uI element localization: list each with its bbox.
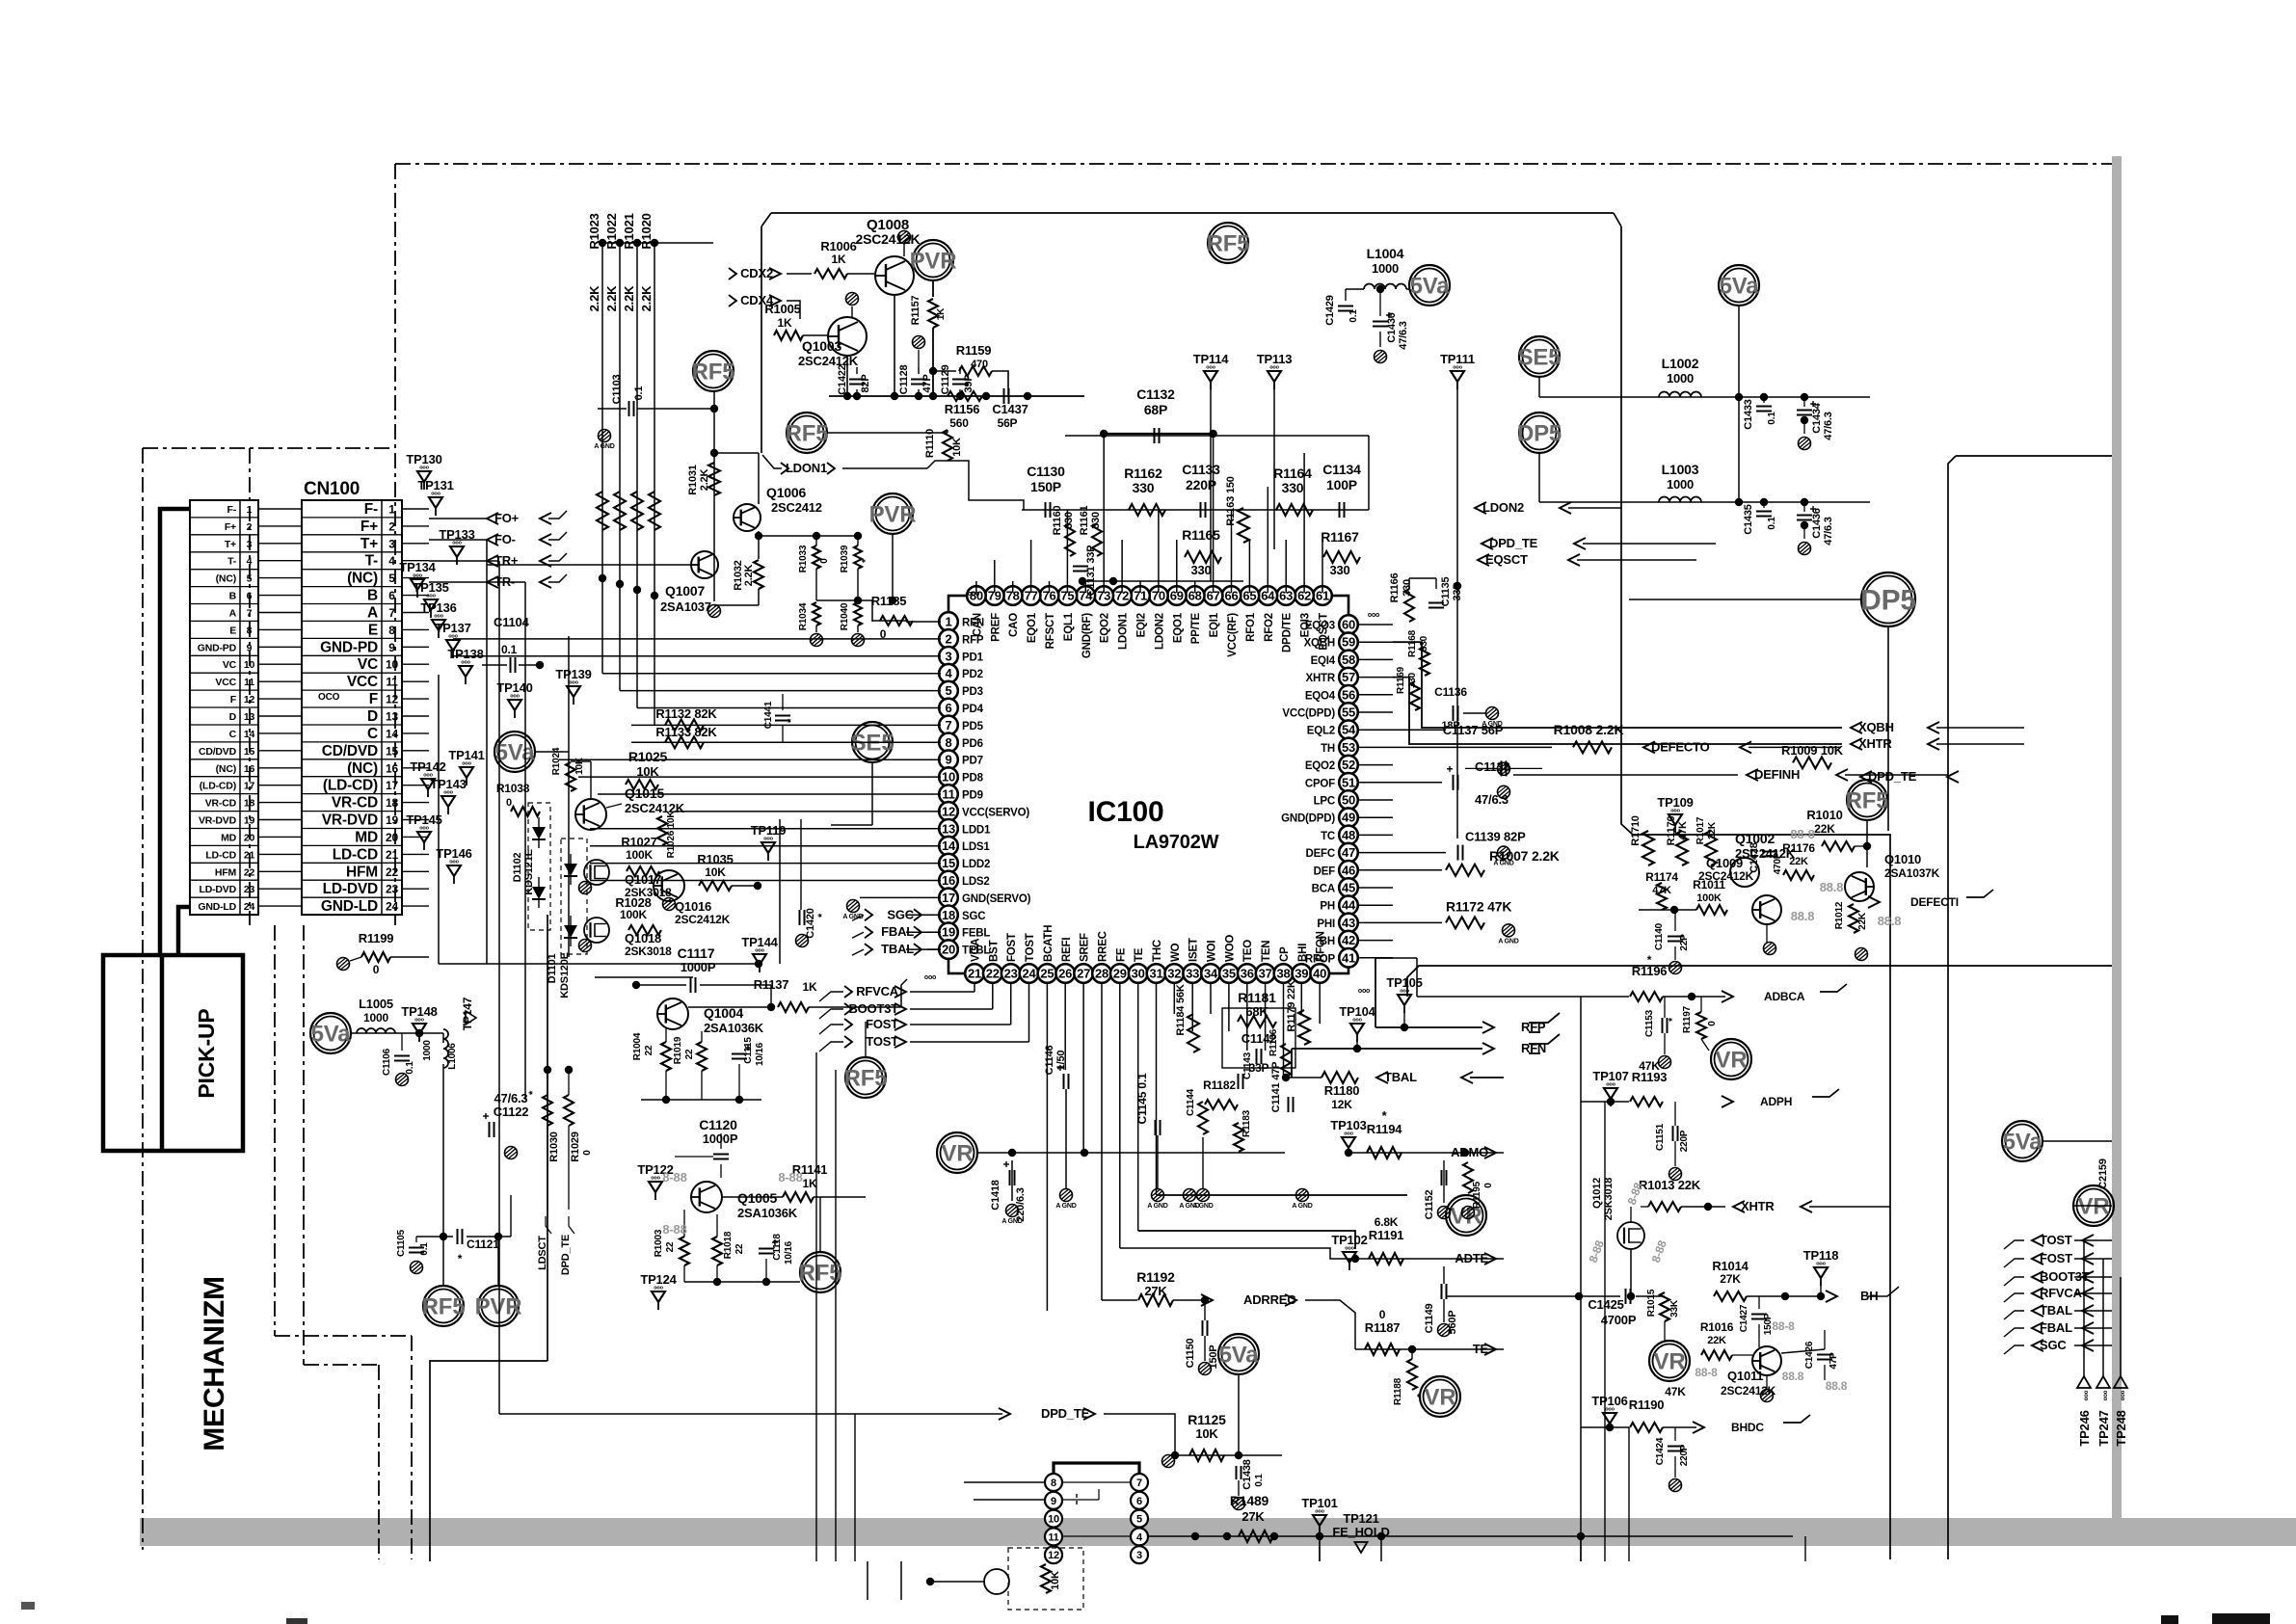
svg-text:GND(RF): GND(RF) (1081, 613, 1093, 659)
svg-text:C1105: C1105 (396, 1229, 407, 1257)
svg-text:PD8: PD8 (962, 773, 984, 785)
svg-text:56: 56 (1342, 687, 1355, 702)
svg-text:TP246: TP246 (2077, 1410, 2092, 1446)
svg-text:FBAL: FBAL (2040, 1320, 2072, 1335)
svg-text:R1710: R1710 (1630, 815, 1642, 845)
svg-text:47K: 47K (1639, 1059, 1660, 1073)
svg-text:7: 7 (1136, 1478, 1142, 1489)
svg-text:2.2K: 2.2K (587, 285, 601, 311)
svg-text:TP121: TP121 (1343, 1511, 1378, 1526)
svg-text:TP102: TP102 (1331, 1233, 1367, 1247)
svg-text:BOOT3T: BOOT3T (848, 1001, 898, 1016)
svg-text:WO: WO (1170, 943, 1182, 962)
svg-text:F: F (230, 694, 237, 706)
svg-text:5Va: 5Va (311, 1021, 352, 1047)
svg-text:CAO: CAO (1008, 613, 1020, 637)
svg-text:17: 17 (244, 781, 255, 792)
svg-text:PD5: PD5 (962, 721, 984, 732)
svg-text:(NC): (NC) (347, 571, 378, 587)
svg-text:C1427: C1427 (1739, 1304, 1749, 1332)
svg-text:11: 11 (386, 676, 398, 689)
svg-text:C1146: C1146 (1044, 1046, 1055, 1076)
svg-text:(NC): (NC) (347, 760, 378, 777)
svg-text:L1006: L1006 (447, 1043, 458, 1070)
svg-text:R1191: R1191 (1369, 1228, 1404, 1242)
svg-text:TP107: TP107 (1592, 1069, 1628, 1083)
svg-text:8: 8 (247, 625, 253, 636)
svg-text:22K: 22K (1789, 856, 1808, 867)
svg-text:22: 22 (684, 1049, 695, 1059)
svg-text:43: 43 (1342, 916, 1355, 930)
svg-text:EQL2: EQL2 (1307, 726, 1335, 737)
svg-text:6: 6 (945, 701, 951, 715)
svg-text:560: 560 (949, 416, 969, 430)
svg-text:27K: 27K (1241, 1509, 1265, 1524)
svg-text:C1128: C1128 (898, 365, 910, 395)
svg-text:29: 29 (1113, 967, 1127, 981)
svg-text:60: 60 (1342, 618, 1355, 632)
svg-text:VCC: VCC (347, 674, 378, 690)
svg-text:C1430: C1430 (1386, 312, 1398, 342)
svg-text:20: 20 (386, 831, 398, 844)
svg-text:F: F (369, 691, 378, 707)
svg-text:GND-PD: GND-PD (198, 642, 237, 653)
svg-text:88.8: 88.8 (1820, 880, 1844, 894)
svg-text:17: 17 (942, 891, 955, 905)
svg-text:0: 0 (582, 1150, 593, 1156)
svg-text:R1167: R1167 (1321, 529, 1359, 545)
svg-text:DPD_TE: DPD_TE (560, 1235, 572, 1275)
svg-text:88-8: 88-8 (1695, 1366, 1718, 1379)
svg-text:R1008 2.2K: R1008 2.2K (1554, 722, 1624, 737)
svg-text:A GND: A GND (1147, 1203, 1167, 1210)
svg-text:22P: 22P (1679, 934, 1690, 951)
svg-text:R1034: R1034 (798, 602, 809, 630)
svg-text:RF5: RF5 (1846, 787, 1889, 813)
svg-text:C1103: C1103 (611, 375, 623, 405)
svg-text:6: 6 (388, 589, 395, 602)
svg-text:TP144: TP144 (741, 935, 778, 949)
svg-text:A GND: A GND (1055, 1203, 1076, 1210)
svg-text:68P: 68P (1144, 402, 1167, 417)
svg-text:R1009 10K: R1009 10K (1781, 743, 1844, 758)
svg-text:12: 12 (244, 694, 255, 706)
svg-text:R1030: R1030 (548, 1131, 560, 1161)
svg-text:RFO1: RFO1 (1245, 612, 1257, 642)
svg-text:R1039: R1039 (840, 545, 850, 572)
svg-text:CD/DVD: CD/DVD (322, 743, 378, 759)
svg-text:LDS2: LDS2 (962, 876, 990, 888)
svg-text:220P: 220P (1679, 1130, 1690, 1152)
svg-text:C1152: C1152 (1424, 1190, 1435, 1220)
svg-text:6: 6 (247, 591, 253, 602)
svg-text:R1025: R1025 (628, 749, 668, 764)
svg-text:2SC2412K: 2SC2412K (675, 913, 731, 926)
svg-text:VR: VR (942, 1140, 974, 1166)
svg-text:ooo: ooo (2103, 1390, 2109, 1400)
svg-text:TP147: TP147 (461, 997, 474, 1030)
svg-text:PD1: PD1 (962, 652, 984, 663)
svg-text:R1013 22K: R1013 22K (1639, 1178, 1701, 1192)
svg-text:C1144: C1144 (1186, 1088, 1196, 1116)
svg-text:(LD-CD): (LD-CD) (200, 781, 236, 792)
svg-text:C1122: C1122 (494, 1105, 529, 1119)
svg-text:27: 27 (1077, 967, 1090, 981)
svg-text:16: 16 (942, 873, 955, 888)
svg-text:59: 59 (1342, 635, 1355, 650)
svg-text:WOI: WOI (1207, 941, 1218, 962)
svg-text:Q1010: Q1010 (1884, 852, 1921, 866)
svg-text:TBAL: TBAL (1384, 1070, 1417, 1084)
svg-text:R1027: R1027 (621, 835, 656, 849)
svg-text:R1012: R1012 (1834, 901, 1845, 929)
svg-text:DP5: DP5 (1860, 585, 1916, 617)
svg-text:A GND: A GND (1292, 1203, 1312, 1210)
svg-text:12: 12 (386, 693, 398, 706)
svg-text:47P: 47P (1829, 1352, 1839, 1370)
svg-text:TP134: TP134 (399, 560, 436, 574)
svg-text:R1035: R1035 (697, 852, 733, 866)
svg-text:C1422: C1422 (837, 364, 848, 394)
svg-text:19: 19 (942, 925, 955, 940)
svg-text:16: 16 (244, 763, 255, 775)
svg-text:C1106: C1106 (382, 1048, 392, 1076)
svg-text:0.1: 0.1 (1767, 517, 1777, 530)
svg-text:C1151: C1151 (1655, 1123, 1666, 1151)
svg-text:0: 0 (373, 963, 380, 976)
svg-text:ADMO: ADMO (1451, 1145, 1488, 1159)
svg-text:DEFECTI: DEFECTI (1910, 895, 1959, 909)
svg-text:51: 51 (1342, 775, 1355, 789)
svg-text:A GND: A GND (1498, 938, 1518, 945)
svg-text:C1132: C1132 (1136, 386, 1175, 402)
svg-text:22: 22 (665, 1241, 676, 1252)
svg-text:PD3: PD3 (962, 686, 983, 698)
svg-text:C1149: C1149 (1424, 1304, 1435, 1334)
svg-text:R1162: R1162 (1124, 466, 1162, 481)
svg-text:R1161: R1161 (1079, 506, 1090, 536)
svg-text:REFI: REFI (1061, 938, 1073, 962)
svg-text:9: 9 (945, 753, 951, 767)
svg-text:R1170: R1170 (1666, 816, 1677, 846)
svg-text:12: 12 (1048, 1550, 1059, 1561)
svg-text:SE5: SE5 (1518, 344, 1562, 370)
svg-text:7: 7 (945, 718, 951, 732)
svg-text:7: 7 (247, 608, 253, 620)
svg-text:VC: VC (223, 659, 237, 671)
svg-text:TOST: TOST (1025, 933, 1036, 962)
svg-text:C1129: C1129 (940, 365, 951, 395)
svg-text:ooo: ooo (1358, 988, 1370, 995)
svg-text:VR: VR (1425, 1384, 1456, 1410)
svg-text:22: 22 (644, 1045, 654, 1055)
svg-text:1000: 1000 (422, 1040, 433, 1061)
svg-text:42: 42 (1342, 933, 1355, 947)
svg-text:R1125: R1125 (1188, 1412, 1226, 1427)
svg-text:C1150: C1150 (1185, 1339, 1196, 1369)
svg-text:EQO2: EQO2 (1305, 760, 1335, 772)
svg-text:5Va: 5Va (1410, 273, 1451, 299)
svg-text:36: 36 (1241, 967, 1254, 981)
svg-text:ooo: ooo (2121, 1390, 2126, 1400)
svg-text:330: 330 (1329, 563, 1349, 577)
svg-text:16: 16 (386, 761, 398, 775)
svg-text:THC: THC (1152, 940, 1163, 962)
svg-text:PP/TE: PP/TE (1190, 612, 1202, 644)
svg-text:T+: T+ (225, 539, 236, 550)
svg-text:(NC): (NC) (216, 763, 236, 775)
svg-text:19: 19 (386, 813, 398, 827)
svg-text:HFM: HFM (346, 864, 378, 880)
svg-text:LD-DVD: LD-DVD (200, 884, 237, 895)
svg-text:EQO1: EQO1 (1027, 612, 1038, 643)
svg-text:R1179 22K: R1179 22K (1286, 980, 1297, 1031)
svg-text:39: 39 (1295, 967, 1308, 981)
svg-text:47/6.3: 47/6.3 (1398, 321, 1409, 349)
svg-text:47K: 47K (1665, 1385, 1686, 1398)
svg-text:27K: 27K (1144, 1284, 1167, 1298)
svg-text:R1018: R1018 (723, 1231, 734, 1259)
svg-text:2: 2 (388, 519, 395, 533)
svg-text:10K: 10K (1050, 1571, 1061, 1590)
svg-text:EQO1: EQO1 (1172, 612, 1184, 643)
svg-text:*: * (1416, 1394, 1427, 1398)
svg-text:TP143: TP143 (430, 777, 466, 791)
svg-text:0: 0 (1707, 1021, 1718, 1026)
svg-text:BCATH: BCATH (1043, 925, 1055, 962)
svg-text:TBAL: TBAL (881, 942, 914, 956)
svg-text:LDON2: LDON2 (1154, 613, 1165, 650)
svg-text:1K: 1K (832, 253, 846, 266)
svg-text:R1168: R1168 (1407, 629, 1418, 657)
svg-text:CDX2: CDX2 (740, 266, 773, 280)
svg-text:MD: MD (221, 832, 237, 843)
svg-text:R1169: R1169 (1396, 666, 1406, 694)
svg-text:RFO2: RFO2 (1264, 613, 1275, 642)
svg-text:3: 3 (388, 537, 395, 550)
svg-text:8-88: 8-88 (662, 1170, 686, 1185)
svg-text:0.1: 0.1 (405, 1061, 415, 1075)
svg-text:22K: 22K (1814, 822, 1835, 836)
svg-text:13: 13 (386, 710, 398, 724)
svg-text:330: 330 (1402, 579, 1413, 597)
svg-text:47K: 47K (1677, 821, 1689, 840)
svg-text:10/16: 10/16 (784, 1240, 794, 1265)
svg-text:A: A (367, 605, 378, 622)
svg-text:KDS121E: KDS121E (523, 849, 535, 895)
svg-text:VR-DVD: VR-DVD (199, 815, 237, 827)
svg-text:TP114: TP114 (1193, 352, 1230, 366)
svg-text:TP109: TP109 (1657, 795, 1693, 810)
svg-text:R1183: R1183 (1241, 1109, 1252, 1137)
svg-text:1: 1 (247, 504, 253, 516)
svg-text:C1121: C1121 (467, 1238, 499, 1251)
svg-text:TP103: TP103 (1330, 1118, 1366, 1132)
svg-text:TOST: TOST (2040, 1233, 2072, 1247)
svg-text:CP: CP (1279, 946, 1291, 962)
svg-text:XHTR: XHTR (1305, 673, 1335, 684)
svg-text:GND(SERVO): GND(SERVO) (962, 893, 1031, 905)
svg-text:TP137: TP137 (435, 621, 470, 635)
svg-text:C1139 82P: C1139 82P (1465, 830, 1526, 844)
svg-text:46: 46 (1342, 863, 1355, 877)
svg-text:8: 8 (388, 624, 395, 637)
svg-text:0.1: 0.1 (633, 386, 645, 401)
svg-text:D: D (229, 711, 237, 723)
svg-text:10K: 10K (951, 438, 963, 457)
svg-text:0.1: 0.1 (501, 643, 518, 656)
svg-text:5: 5 (945, 683, 951, 698)
svg-text:PICK-UP: PICK-UP (194, 1008, 219, 1098)
svg-text:TE: TE (1134, 947, 1145, 962)
svg-text:5: 5 (247, 573, 253, 585)
svg-text:IC100: IC100 (1087, 796, 1163, 828)
svg-text:5Va: 5Va (495, 739, 536, 765)
svg-text:C1153: C1153 (1644, 1009, 1655, 1037)
svg-text:C1140: C1140 (1654, 922, 1665, 950)
svg-text:1K: 1K (936, 307, 947, 320)
svg-text:2: 2 (247, 521, 253, 533)
svg-text:10: 10 (1048, 1514, 1059, 1526)
svg-text:LDON1: LDON1 (1118, 612, 1130, 650)
svg-text:20: 20 (942, 943, 955, 957)
svg-text:TP119: TP119 (751, 823, 787, 838)
svg-text:FOST: FOST (866, 1017, 898, 1031)
svg-text:C1145 0.1: C1145 0.1 (1135, 1073, 1149, 1124)
svg-text:TP138: TP138 (447, 647, 483, 661)
svg-text:220/6.3: 220/6.3 (1015, 1187, 1027, 1221)
svg-text:8: 8 (1051, 1478, 1056, 1489)
svg-text:XHTR: XHTR (1858, 736, 1892, 751)
svg-text:C1424: C1424 (1655, 1437, 1666, 1465)
svg-text:R1010: R1010 (1806, 808, 1842, 822)
svg-text:RF5: RF5 (844, 1065, 888, 1091)
svg-text:2.2K: 2.2K (743, 565, 755, 587)
svg-text:ADTE: ADTE (1455, 1251, 1488, 1265)
svg-text:R1184 56K: R1184 56K (1175, 984, 1187, 1035)
svg-text:PD2: PD2 (962, 669, 983, 680)
svg-text:C1136: C1136 (1434, 685, 1467, 699)
svg-text:VR-CD: VR-CD (332, 795, 378, 812)
svg-text:WOO: WOO (1224, 935, 1236, 962)
svg-text:TP141: TP141 (448, 748, 484, 762)
svg-text:GND-PD: GND-PD (320, 639, 378, 655)
svg-text:100K: 100K (626, 848, 653, 862)
svg-text:14: 14 (942, 839, 956, 853)
svg-text:LDON2: LDON2 (1482, 500, 1524, 515)
svg-text:R1040: R1040 (840, 602, 850, 630)
svg-text:PREF: PREF (990, 613, 1001, 642)
svg-text:SGC: SGC (887, 907, 914, 921)
svg-text:Q1009: Q1009 (1706, 856, 1743, 870)
svg-text:22K: 22K (1857, 912, 1868, 930)
svg-text:88.8: 88.8 (1826, 1379, 1848, 1393)
svg-text:1000: 1000 (1667, 371, 1694, 386)
svg-text:21: 21 (386, 848, 398, 862)
svg-text:R1004: R1004 (632, 1032, 643, 1060)
svg-text:BST: BST (988, 940, 1000, 962)
svg-text:21: 21 (244, 849, 255, 861)
svg-text:10K: 10K (705, 865, 726, 879)
svg-text:T+: T+ (360, 536, 378, 552)
svg-text:47/6.3: 47/6.3 (494, 1091, 528, 1105)
svg-text:*: * (861, 559, 871, 563)
svg-text:L1003: L1003 (1662, 462, 1699, 477)
svg-text:330: 330 (1133, 480, 1155, 495)
svg-text:1000P: 1000P (703, 1131, 738, 1146)
svg-text:GND-LD: GND-LD (321, 898, 378, 915)
svg-text:15: 15 (244, 746, 255, 758)
svg-text:C1441: C1441 (763, 701, 774, 729)
svg-text:5: 5 (388, 572, 395, 585)
svg-text:ooo: ooo (1368, 612, 1379, 619)
svg-text:15: 15 (942, 856, 955, 870)
svg-text:PHI: PHI (1317, 918, 1335, 930)
svg-text:DEF: DEF (1314, 865, 1336, 877)
svg-text:R1024: R1024 (551, 747, 562, 775)
svg-text:14: 14 (386, 727, 398, 740)
svg-text:C1425: C1425 (1588, 1297, 1623, 1312)
svg-text:R1017: R1017 (1695, 816, 1706, 844)
svg-text:T-: T- (365, 553, 378, 570)
svg-text:CAN: CAN (972, 613, 983, 636)
svg-text:FOST: FOST (1006, 933, 1018, 962)
svg-text:2.2K: 2.2K (699, 469, 710, 492)
svg-text:R1195: R1195 (1472, 1181, 1482, 1209)
svg-text:CD/DVD: CD/DVD (199, 746, 237, 758)
svg-text:TP131: TP131 (417, 478, 453, 493)
svg-text:Q1018: Q1018 (625, 931, 661, 945)
svg-text:5Va: 5Va (1219, 1342, 1260, 1368)
svg-text:CN100: CN100 (304, 479, 360, 499)
svg-text:EQI1: EQI1 (1209, 612, 1220, 637)
svg-text:6.8K: 6.8K (1375, 1215, 1399, 1229)
svg-text:22: 22 (986, 967, 1000, 981)
svg-text:FO-: FO- (494, 532, 516, 546)
svg-text:B: B (229, 591, 237, 602)
svg-text:SGC: SGC (2040, 1338, 2067, 1352)
svg-text:EQSCT: EQSCT (1485, 552, 1528, 567)
svg-text:7: 7 (388, 606, 395, 620)
svg-text:R1164: R1164 (1273, 466, 1312, 481)
svg-text:ADBCA: ADBCA (1764, 990, 1805, 1003)
svg-text:28: 28 (1095, 967, 1108, 981)
svg-text:2SA1036K: 2SA1036K (737, 1206, 798, 1220)
svg-text:VR: VR (2078, 1193, 2110, 1219)
svg-text:4: 4 (388, 554, 395, 568)
svg-text:Q1016: Q1016 (675, 899, 711, 914)
svg-text:10K: 10K (636, 764, 659, 779)
svg-text:0.1: 0.1 (1254, 1474, 1265, 1487)
svg-text:R1194: R1194 (1367, 1122, 1403, 1136)
svg-text:2SA1037K: 2SA1037K (1884, 866, 1940, 880)
svg-text:ISET: ISET (1188, 938, 1200, 962)
svg-text:22K: 22K (1707, 1335, 1726, 1346)
svg-text:(LD-CD): (LD-CD) (323, 778, 378, 794)
svg-text:Q1005: Q1005 (737, 1190, 777, 1206)
svg-text:MD: MD (355, 829, 378, 845)
svg-text:82P: 82P (860, 375, 871, 393)
svg-text:F-: F- (364, 501, 378, 518)
svg-text:VCC(DPD): VCC(DPD) (1282, 708, 1335, 720)
svg-text:10: 10 (386, 658, 398, 672)
svg-text:C1133: C1133 (1182, 462, 1220, 477)
svg-text:VCC(SERVO): VCC(SERVO) (962, 807, 1029, 818)
svg-text:220P: 220P (1679, 1444, 1690, 1466)
svg-text:4700P: 4700P (1601, 1313, 1637, 1327)
svg-text:R1005: R1005 (764, 302, 800, 316)
svg-text:R1006: R1006 (820, 239, 856, 253)
